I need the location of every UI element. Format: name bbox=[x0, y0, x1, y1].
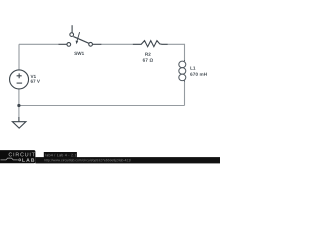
wire bottom bbox=[19, 105, 185, 107]
inductor L1 bbox=[184, 60, 186, 61]
ground bbox=[12, 117, 26, 128]
switch SW1 bbox=[59, 25, 102, 46]
watermark title box bbox=[44, 152, 77, 158]
wire top-left horizontal bbox=[19, 43, 59, 45]
label V1 bbox=[31, 75, 36, 78]
node junction dot bbox=[17, 104, 20, 107]
wire ground stem bbox=[18, 106, 20, 118]
resistor R2 body bbox=[133, 41, 168, 47]
watermark logo trace bbox=[1, 158, 18, 160]
label L1 bbox=[190, 66, 195, 69]
switch left lead bbox=[59, 43, 67, 45]
switch right lead bbox=[93, 43, 102, 45]
wire left rail lower (junction to V1 bottom) bbox=[18, 89, 20, 106]
wire resistor to top-right corner and down bbox=[168, 44, 185, 60]
label 67 V bbox=[31, 80, 40, 83]
switch actuator arrow bbox=[77, 32, 80, 41]
label 670 mH bbox=[190, 73, 206, 76]
voltage source V1 bbox=[10, 70, 29, 89]
watermark logo node bbox=[19, 159, 21, 161]
switch lever bbox=[73, 37, 89, 44]
watermark logo LAB bbox=[22, 158, 34, 161]
watermark logo box bbox=[0, 150, 35, 163]
label SW1 bbox=[74, 52, 84, 55]
watermark url bar bbox=[35, 157, 220, 163]
watermark logo CIRCUIT bbox=[9, 153, 35, 157]
switch right terminal bbox=[89, 42, 93, 46]
switch arrowhead bbox=[76, 41, 79, 45]
label 67 ohm bbox=[143, 58, 153, 61]
watermark url text bbox=[44, 159, 130, 162]
switch stub pin bbox=[71, 25, 73, 32]
switch left terminal bbox=[67, 43, 71, 47]
wire left rail upper (V1 top to corner) bbox=[18, 44, 20, 70]
watermark title text bbox=[45, 154, 76, 157]
label R2 bbox=[145, 53, 150, 56]
wire right rail bottom bbox=[184, 82, 186, 106]
wire switch to resistor bbox=[101, 43, 133, 45]
switch top terminal bbox=[70, 33, 74, 37]
